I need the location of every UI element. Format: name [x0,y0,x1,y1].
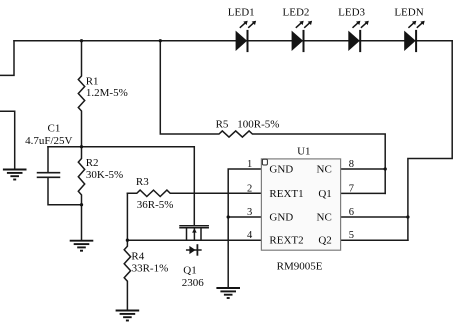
svg-text:LED1: LED1 [228,7,255,19]
svg-text:REXT2: REXT2 [269,235,303,247]
svg-text:GND: GND [269,211,293,223]
svg-text:GND: GND [269,163,293,175]
svg-text:8: 8 [349,159,354,170]
svg-text:2306: 2306 [182,277,205,289]
svg-text:Q1: Q1 [183,265,196,277]
svg-text:U1: U1 [297,146,310,158]
svg-text:REXT1: REXT1 [269,188,303,200]
svg-text:5: 5 [349,230,354,241]
svg-text:4.7uF/25V: 4.7uF/25V [25,135,72,147]
svg-text:1: 1 [247,159,252,170]
svg-text:36R-5%: 36R-5% [137,199,174,211]
svg-text:RM9005E: RM9005E [277,260,323,272]
svg-text:2: 2 [247,183,252,194]
svg-text:6: 6 [349,207,354,218]
svg-text:R1: R1 [86,75,99,87]
svg-text:1.2M-5%: 1.2M-5% [86,87,128,99]
svg-text:R2: R2 [86,157,99,169]
svg-text:3: 3 [247,207,252,218]
svg-text:NC: NC [317,163,332,175]
svg-text:33R-1%: 33R-1% [132,262,169,274]
svg-text:100R-5%: 100R-5% [237,118,279,130]
svg-text:LEDN: LEDN [394,7,423,19]
svg-text:R5: R5 [216,118,229,130]
svg-text:LED3: LED3 [338,7,365,19]
svg-text:Q1: Q1 [318,188,331,200]
svg-text:NC: NC [317,211,332,223]
svg-text:LED2: LED2 [283,7,310,19]
svg-text:R3: R3 [136,176,149,188]
svg-text:R4: R4 [131,251,144,263]
svg-text:30K-5%: 30K-5% [86,169,123,181]
svg-text:Q2: Q2 [318,235,331,247]
svg-text:4: 4 [247,230,253,241]
svg-text:C1: C1 [48,123,61,135]
svg-text:7: 7 [349,183,354,194]
